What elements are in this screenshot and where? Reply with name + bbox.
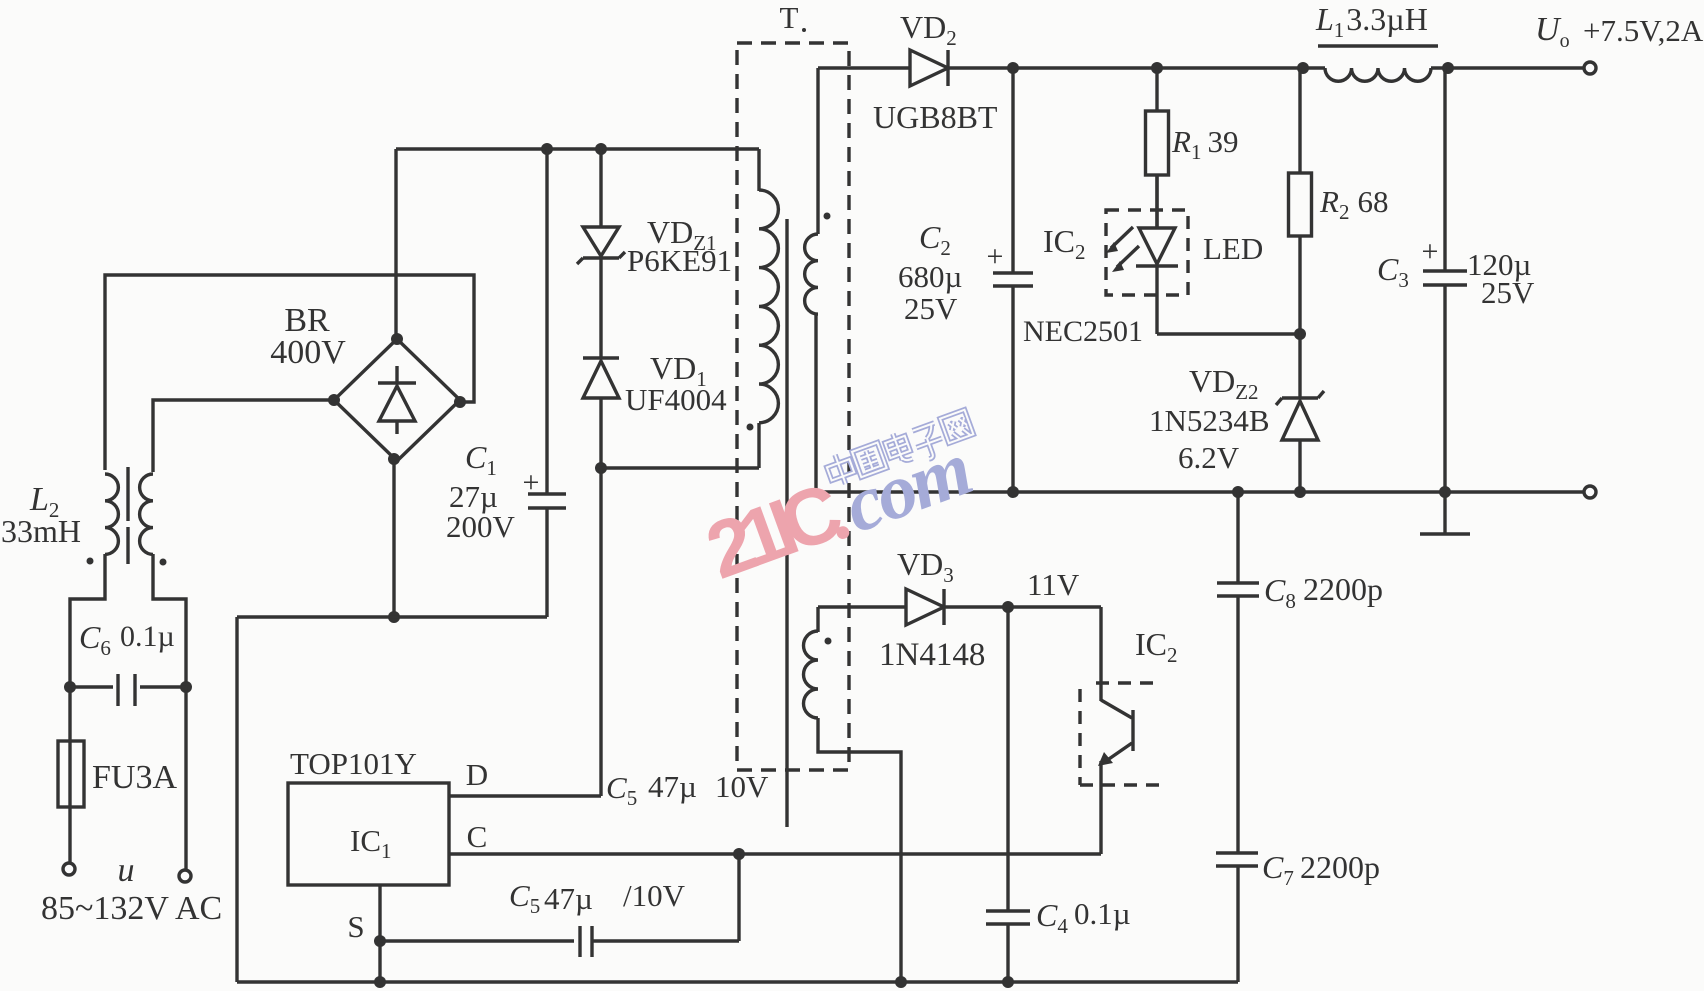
LED of IC2 — [1139, 228, 1175, 264]
svg-text:0.1µ: 0.1µ — [120, 620, 175, 653]
svg-text:400V: 400V — [270, 334, 346, 371]
BR vertex nodes — [391, 333, 403, 345]
transformer core — [785, 219, 788, 827]
primary phase dot — [747, 424, 754, 431]
wire drain drop to IC1 — [599, 468, 602, 796]
node R1 top — [1151, 62, 1163, 74]
svg-text:200V: 200V — [446, 509, 516, 544]
svg-text:Uo: Uo — [1535, 11, 1570, 52]
wire R2 node to zener — [1298, 334, 1301, 398]
svg-text:25V: 25V — [1481, 275, 1535, 310]
node aux return — [895, 976, 907, 988]
node C2 bottom — [1007, 486, 1019, 498]
svg-text:L13.3µH: L13.3µH — [1315, 1, 1428, 42]
diode VD1 UF4004 — [583, 356, 619, 359]
wire primary common bottom rail — [237, 980, 1238, 983]
svg-text:1N5234B: 1N5234B — [1149, 403, 1270, 438]
svg-text:u: u — [118, 852, 135, 889]
svg-text:33mH: 33mH — [1, 513, 81, 549]
capacitor C6 — [70, 685, 113, 688]
svg-text:C2: C2 — [919, 219, 951, 260]
node C1 top — [541, 143, 553, 155]
node S bottom — [374, 976, 386, 988]
svg-text:R139: R139 — [1171, 124, 1238, 164]
svg-text:R268: R268 — [1319, 184, 1388, 224]
svg-text:C6: C6 — [79, 619, 111, 660]
transformer primary winding — [759, 190, 778, 423]
inductor L1 3.3µH — [1325, 68, 1431, 81]
capacitor C2 — [1011, 68, 1014, 273]
secondary phase dot — [824, 213, 831, 220]
wire secondary top lead — [816, 68, 819, 234]
pin D wire — [449, 794, 601, 797]
wire BR left vertex to L2 right winding top — [153, 400, 334, 472]
wire secondary to VD2 — [818, 66, 910, 69]
capacitor C5 (C-S bypass) — [380, 939, 574, 942]
svg-text:47µ: 47µ — [544, 881, 593, 916]
svg-text:D: D — [466, 757, 488, 792]
terminal output common — [1584, 486, 1596, 498]
node C5 feedback junction — [733, 848, 745, 860]
wire aux winding top lead — [816, 607, 819, 632]
zener VDZ1 P6KE91 — [583, 227, 619, 256]
wire snubber top segment — [599, 149, 602, 227]
node R2 mid — [1294, 328, 1306, 340]
wire primary common left drop — [235, 617, 238, 982]
phototransistor of IC2 — [1101, 700, 1132, 718]
svg-text:IC1: IC1 — [350, 823, 392, 863]
svg-text:+: + — [523, 466, 540, 499]
svg-text:25V: 25V — [904, 291, 958, 326]
svg-text:/10V: /10V — [623, 878, 686, 913]
svg-text:2200p: 2200p — [1303, 571, 1383, 607]
svg-text:VDZ2: VDZ2 — [1189, 363, 1259, 404]
terminal output positive — [1584, 62, 1596, 74]
svg-text:IC2: IC2 — [1043, 223, 1086, 264]
zener VDZ2 1N5234B — [1282, 396, 1318, 399]
wire DC+ rail (BR to transformer primary top) — [396, 147, 759, 150]
svg-text:+: + — [987, 240, 1004, 273]
capacitor C3 — [1443, 68, 1446, 271]
diode VD2 UGB8BT — [910, 50, 948, 86]
wire DC- horizontal — [237, 615, 547, 618]
svg-text:S: S — [347, 909, 364, 944]
ground — [1443, 492, 1446, 533]
wire output common rail — [816, 490, 1584, 493]
aux phase dot — [825, 638, 832, 645]
capacitor C7 2200p — [1216, 851, 1258, 854]
wire aux bottom lead — [818, 718, 901, 983]
svg-text:+7.5V,2A: +7.5V,2A — [1583, 13, 1704, 48]
wire L2 left winding bottom lead — [70, 554, 105, 687]
node drain junction — [595, 462, 607, 474]
inductor L2 left winding — [105, 474, 118, 554]
node C6 right — [180, 681, 192, 693]
op-amp IC1 TOP101Y box — [288, 783, 449, 885]
capacitor C4 — [1006, 607, 1009, 911]
phototransistor dashed box — [1096, 681, 1160, 684]
svg-text:85~132V AC: 85~132V AC — [41, 890, 222, 927]
svg-text:LED: LED — [1203, 231, 1263, 266]
node VDZ2 bottom — [1294, 486, 1306, 498]
node C6 left — [64, 681, 76, 693]
bridge rectifier BR diamond — [334, 339, 460, 461]
terminal AC input right — [179, 870, 191, 882]
wire secondary bottom lead — [814, 314, 817, 492]
transformer auxiliary winding — [804, 631, 819, 718]
svg-text:TOP101Y: TOP101Y — [290, 746, 417, 781]
svg-text:C5: C5 — [509, 878, 540, 918]
svg-text:11V: 11V — [1027, 567, 1080, 602]
L2 phase dot left — [87, 558, 94, 565]
svg-text:C: C — [467, 819, 488, 854]
svg-text:UGB8BT: UGB8BT — [873, 99, 998, 135]
wire LED to R2 node — [1157, 332, 1300, 335]
transformer T dashed box — [737, 43, 849, 770]
node C4 bottom — [1002, 976, 1014, 988]
wire opto collector drop — [1099, 607, 1102, 701]
fuse FU3A — [68, 687, 71, 863]
capacitor C8 2200p — [1236, 492, 1239, 583]
svg-text:VD3: VD3 — [897, 546, 954, 587]
wire BR minus down — [392, 461, 395, 617]
L2 phase dot right — [160, 559, 167, 566]
svg-text:C5: C5 — [606, 770, 637, 810]
capacitor C1 — [545, 149, 548, 494]
node 11V — [1002, 601, 1014, 613]
svg-text:C8: C8 — [1264, 572, 1296, 613]
svg-text:1N4148: 1N4148 — [879, 637, 985, 673]
svg-text:6.2V: 6.2V — [1178, 440, 1240, 475]
svg-text:C1: C1 — [465, 439, 497, 480]
LED arrows — [1111, 227, 1133, 248]
L2 core — [126, 467, 129, 521]
svg-text:UF4004: UF4004 — [625, 382, 727, 417]
svg-text:C7: C7 — [1262, 849, 1294, 890]
svg-text:+: + — [1422, 235, 1439, 268]
pin S wire — [378, 885, 381, 983]
svg-text:T: T — [780, 0, 799, 35]
svg-text:2200p: 2200p — [1300, 849, 1380, 885]
svg-text:10V: 10V — [715, 769, 769, 804]
BR inner diode — [395, 366, 398, 382]
svg-text:VD2: VD2 — [900, 9, 957, 50]
svg-text:NEC2501: NEC2501 — [1023, 315, 1143, 348]
wire LED cathode down — [1155, 266, 1158, 334]
wire primary top lead — [757, 149, 760, 191]
wire primary bottom lead — [757, 423, 760, 468]
svg-text:P6KE91: P6KE91 — [627, 243, 732, 278]
svg-text:FU3A: FU3A — [92, 759, 177, 796]
node C2 top — [1007, 62, 1019, 74]
pin C wire — [449, 852, 1101, 855]
optocoupler LED dashed box — [1106, 210, 1188, 295]
wire BR positive output up — [394, 149, 397, 340]
svg-text:47µ: 47µ — [648, 769, 697, 804]
transformer secondary winding — [805, 234, 818, 314]
svg-text:0.1µ: 0.1µ — [1074, 896, 1131, 931]
node snubber top — [595, 143, 607, 155]
resistor R1 39 — [1155, 68, 1158, 111]
svg-text:C4: C4 — [1036, 897, 1068, 938]
wire primary bottom — [601, 466, 759, 469]
node L1 right — [1442, 62, 1454, 74]
node C3 bottom — [1439, 486, 1451, 498]
wire AC input top loop (L2 left lead up, across, down to BR right vertex) — [105, 275, 474, 470]
inductor L2 right winding — [140, 474, 153, 554]
node C8 rail — [1232, 486, 1244, 498]
wire snubber mid segment — [599, 258, 602, 357]
diode VD3 1N4148 — [906, 589, 944, 625]
terminal AC input left — [63, 863, 75, 875]
wire L2 right winding bottom lead — [153, 554, 186, 687]
svg-text:680µ: 680µ — [898, 259, 962, 294]
wire AC right lead down — [184, 687, 187, 870]
wire aux to VD3 — [818, 605, 906, 608]
resistor R2 68 — [1298, 68, 1301, 173]
wire VD3 to 11V node — [944, 605, 1101, 608]
node S — [374, 935, 386, 947]
wire output positive rail — [948, 66, 1325, 69]
svg-text:IC2: IC2 — [1135, 626, 1178, 667]
wire snubber bottom segment — [599, 398, 602, 468]
svg-text:C3: C3 — [1377, 251, 1409, 292]
L1 underline — [1318, 44, 1438, 47]
node BR minus — [388, 611, 400, 623]
node R2/L1 top — [1297, 62, 1309, 74]
